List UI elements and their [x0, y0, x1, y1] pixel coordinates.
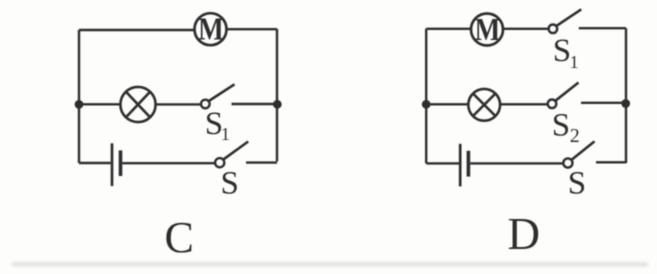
node: left junction dot D — [422, 100, 431, 109]
node: right junction dot D — [621, 99, 630, 108]
wire: right rail C — [276, 29, 278, 162]
svg-text:1: 1 — [570, 52, 579, 72]
switch S1 pivot (C circuit) — [201, 100, 210, 109]
wire: bottom rail left segment D — [426, 162, 459, 164]
scan smudge band bottom — [12, 263, 648, 267]
wire: switch S1 contact to right rail (D circuit) — [579, 27, 626, 29]
battery long plate (C circuit) — [111, 143, 114, 186]
switch S2 lever (D circuit) — [556, 83, 579, 101]
switch S lever (C circuit) — [224, 142, 249, 160]
switch S pivot (D circuit) — [563, 158, 572, 167]
lamp (D circuit) — [468, 89, 500, 121]
wire: bottom rail left segment C — [79, 162, 111, 164]
wire: left rail C — [78, 30, 80, 163]
wire: top rail left segment C — [79, 29, 194, 31]
node: left junction dot C — [75, 100, 84, 109]
switch S lever (D circuit) — [572, 141, 595, 159]
svg-text:C: C — [165, 213, 194, 262]
svg-text:2: 2 — [570, 125, 580, 147]
battery short plate (C circuit) — [119, 150, 123, 176]
switch S2 pivot (D circuit) — [548, 100, 557, 109]
switch S1 lever (D circuit) — [556, 9, 581, 26]
wire: right rail D — [625, 28, 627, 163]
motor M (C circuit) — [195, 13, 227, 45]
wire: switch S contact to right rail (D circuit) — [596, 161, 626, 163]
battery short plate (D circuit) — [467, 151, 471, 177]
wire: motor to switch S1 pivot (D circuit) — [504, 28, 549, 30]
svg-text:S: S — [568, 165, 586, 201]
wire: top rail right segment C — [227, 28, 277, 30]
svg-text:D: D — [508, 209, 541, 259]
svg-text:S: S — [553, 33, 571, 69]
wire: switch S contact to right rail (C circuit) — [246, 161, 277, 163]
wire: battery to switch S pivot (D circuit) — [470, 162, 563, 164]
svg-text:S: S — [552, 107, 570, 143]
switch S1 lever (C circuit) — [209, 84, 235, 101]
wire: switch S2 contact to right rail (D circuit) — [581, 102, 626, 104]
wire: middle rail to switch S1 pivot — [156, 103, 201, 105]
wire: switch S1 contact to right rail — [232, 103, 278, 105]
motor M (D circuit) — [471, 14, 503, 46]
wire: top rail left segment D — [426, 28, 470, 30]
wire: battery to switch S pivot (C circuit) — [122, 162, 214, 164]
switch S1 pivot (D circuit) — [549, 25, 558, 34]
wire: middle rail left segment C — [79, 103, 121, 105]
wire: middle rail left segment D — [426, 103, 468, 105]
battery long plate (D circuit) — [459, 144, 462, 187]
lamp (C circuit) — [120, 87, 155, 122]
svg-text:M: M — [198, 13, 224, 47]
svg-text:1: 1 — [221, 124, 230, 144]
node: right junction dot C — [273, 100, 282, 109]
svg-text:S: S — [221, 166, 239, 202]
wire: lamp to switch S2 pivot (D circuit) — [501, 103, 548, 105]
svg-text:M: M — [475, 13, 501, 47]
switch S pivot (C circuit) — [215, 158, 224, 167]
wire: left rail D — [425, 29, 427, 164]
